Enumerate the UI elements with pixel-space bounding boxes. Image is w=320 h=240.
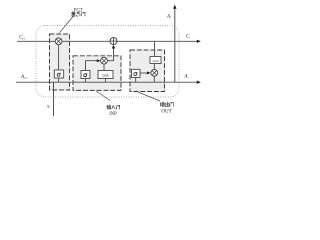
multiply node (forget gate) [55, 38, 62, 45]
pointer line to FGT label [60, 17, 74, 33]
multiply node (input gate) [101, 57, 108, 64]
pointer line to OUT label [138, 92, 160, 101]
wire tanh1 to multiply [103, 64, 105, 70]
wire C branch down to tanh2 [154, 41, 156, 56]
label OUT [161, 110, 171, 115]
wire sigma2 to multiply (input gate, arrow) [86, 59, 101, 70]
label Ai output (right) [183, 74, 188, 79]
sigma box (forget gate) [54, 70, 63, 78]
forget gate box FGT [50, 34, 70, 90]
svg-text:xi: xi [46, 104, 50, 110]
label A(i-1) input [20, 75, 28, 80]
wire xi input [53, 82, 55, 116]
svg-text:INP: INP [109, 112, 117, 117]
multiply node (output gate) [151, 69, 158, 76]
input gate box INP [73, 56, 121, 91]
sigma box (input gate) [81, 71, 90, 79]
wire Ai upward branch [173, 5, 176, 83]
tanh box (input gate) [98, 71, 113, 79]
wire A (state line, Ai-1 to Ai) [16, 81, 201, 84]
label Ai output (top) [166, 15, 171, 20]
svg-text:tanh: tanh [102, 73, 108, 77]
wire sigma3 to multiply (arrow) [140, 71, 151, 74]
svg-text:tanh: tanh [153, 59, 159, 63]
svg-text:Ai-1: Ai-1 [20, 75, 28, 80]
svg-text:Ai: Ai [166, 15, 171, 20]
tanh box (output gate) [150, 57, 161, 64]
wire tanh1 stub to A line [105, 79, 107, 83]
label input-gate (CJK) [107, 105, 120, 109]
label INP [109, 112, 117, 117]
wire multiply to adder (arrow up) [107, 45, 115, 61]
wire tanh2 to multiply (output gate) [153, 64, 155, 70]
label C(i-1) input [19, 36, 26, 41]
pointer line to INP label [96, 91, 110, 101]
cell boundary (dotted rounded box) [36, 26, 179, 98]
label FGT [74, 8, 83, 13]
wire sigma2 stub to A line [85, 79, 87, 83]
label output-gate (CJK) [160, 102, 173, 107]
label xi input [46, 104, 50, 110]
wire sigma1 stub to A line [58, 78, 60, 82]
wire multiply-to-sigma (forget gate) [58, 45, 60, 70]
svg-text:OUT: OUT [161, 110, 171, 115]
svg-text:Ci-1: Ci-1 [19, 36, 26, 41]
sigma box (output gate) [132, 69, 141, 77]
label forget-gate (CJK) [71, 12, 85, 16]
wire sigma3 stub to A line [135, 78, 137, 83]
label Ci output [186, 34, 190, 39]
wire C (carry line, Ci-1 to Ci) [17, 40, 201, 43]
wire multiply out to A line [153, 76, 155, 82]
svg-text:Ai: Ai [183, 74, 188, 79]
output gate box OUT [130, 50, 165, 92]
adder node (carry update) [110, 38, 117, 45]
svg-text:Ci: Ci [186, 34, 190, 39]
